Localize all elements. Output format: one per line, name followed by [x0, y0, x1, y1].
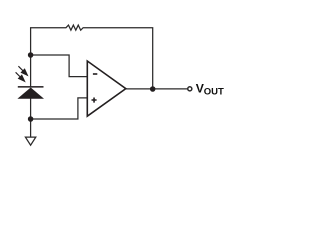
svg-text:OUT: OUT	[204, 87, 224, 98]
